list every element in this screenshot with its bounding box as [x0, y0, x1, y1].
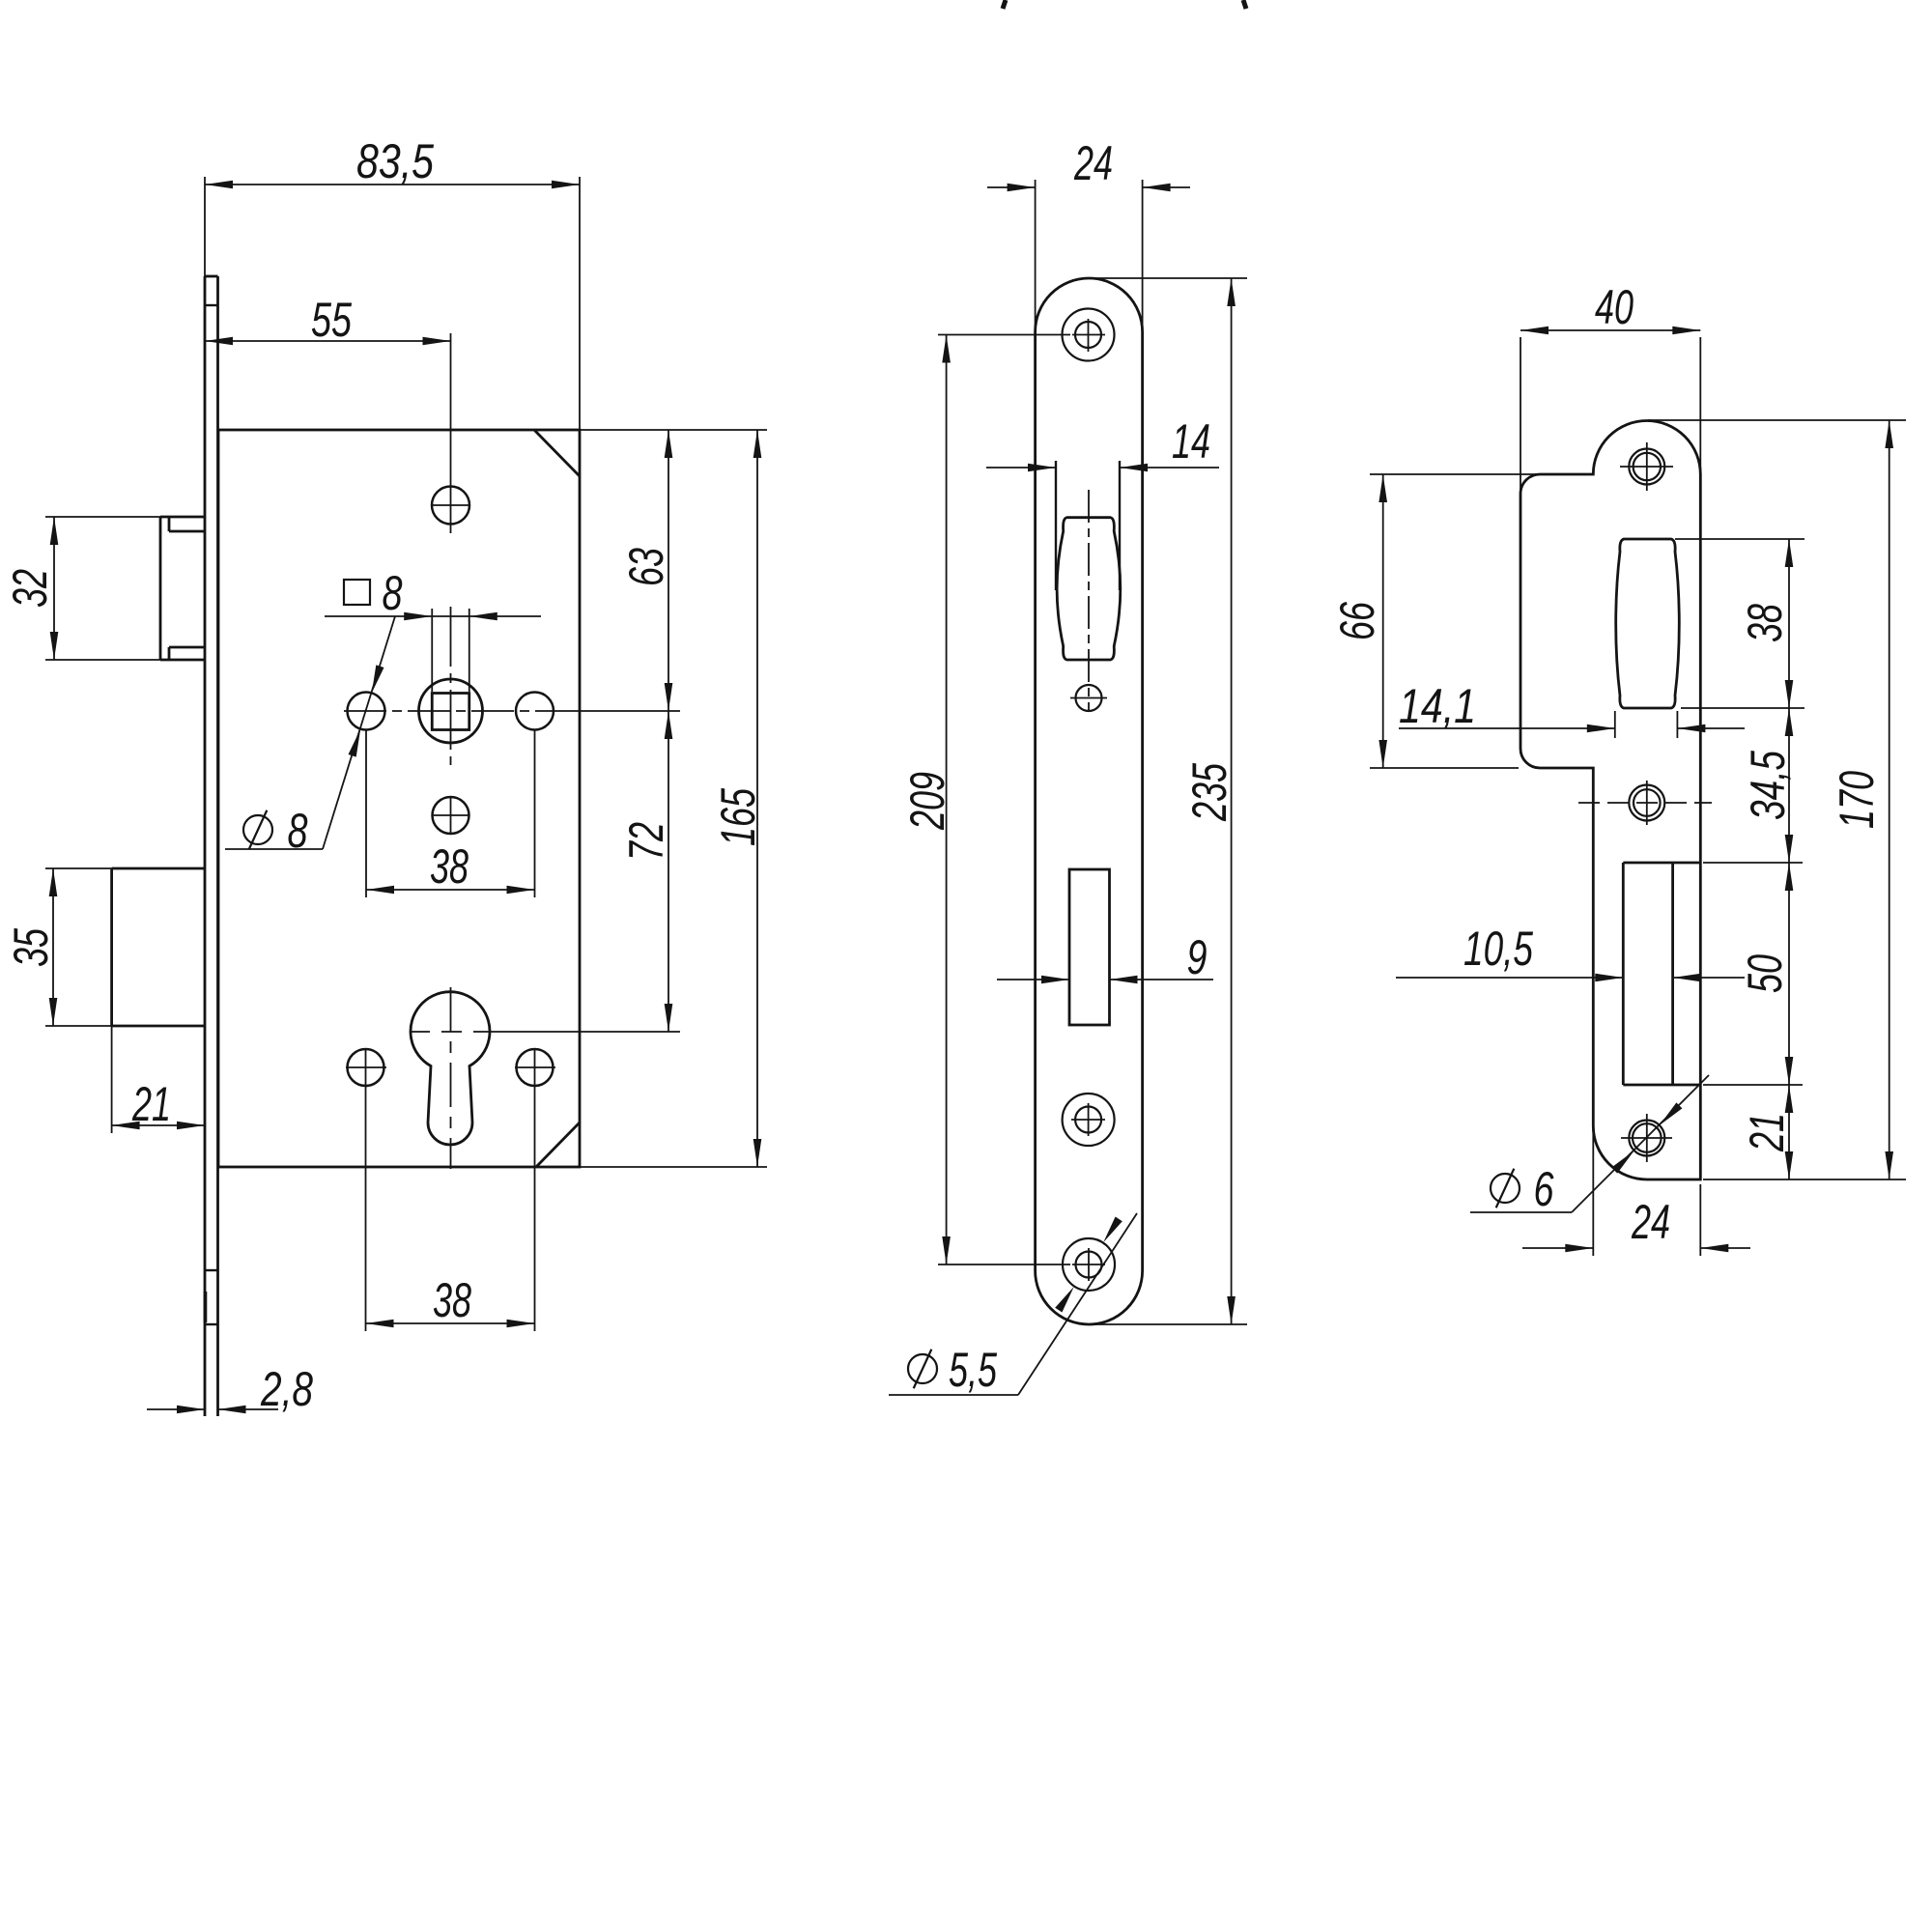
svg-text:21: 21 [131, 1077, 171, 1131]
svg-text:63: 63 [619, 548, 673, 586]
svg-text:83,5: 83,5 [356, 134, 434, 188]
svg-text:24: 24 [1631, 1195, 1670, 1249]
svg-text:170: 170 [1830, 771, 1884, 829]
svg-text:5,5: 5,5 [949, 1343, 997, 1397]
svg-text:9: 9 [1187, 930, 1207, 984]
svg-text:8: 8 [288, 804, 308, 858]
svg-text:72: 72 [619, 822, 673, 861]
svg-text:38: 38 [430, 839, 469, 894]
svg-text:235: 235 [1182, 763, 1236, 822]
svg-text:165: 165 [711, 788, 765, 846]
svg-text:209: 209 [900, 772, 954, 831]
svg-text:8: 8 [383, 566, 403, 620]
svg-text:10,5: 10,5 [1463, 922, 1533, 976]
svg-text:34,5: 34,5 [1741, 751, 1795, 820]
svg-text:24: 24 [1073, 136, 1113, 190]
svg-text:66: 66 [1330, 602, 1384, 640]
svg-text:2,8: 2,8 [260, 1362, 313, 1416]
svg-text:40: 40 [1595, 280, 1634, 334]
svg-text:32: 32 [3, 569, 57, 608]
svg-text:14: 14 [1172, 414, 1210, 469]
svg-text:38: 38 [1738, 604, 1792, 642]
svg-text:14,1: 14,1 [1399, 679, 1476, 733]
svg-text:21: 21 [1740, 1113, 1794, 1152]
svg-text:50: 50 [1738, 954, 1792, 993]
svg-text:35: 35 [4, 928, 58, 967]
svg-text:38: 38 [433, 1273, 471, 1327]
svg-text:6: 6 [1534, 1162, 1554, 1216]
svg-text:55: 55 [311, 293, 352, 347]
